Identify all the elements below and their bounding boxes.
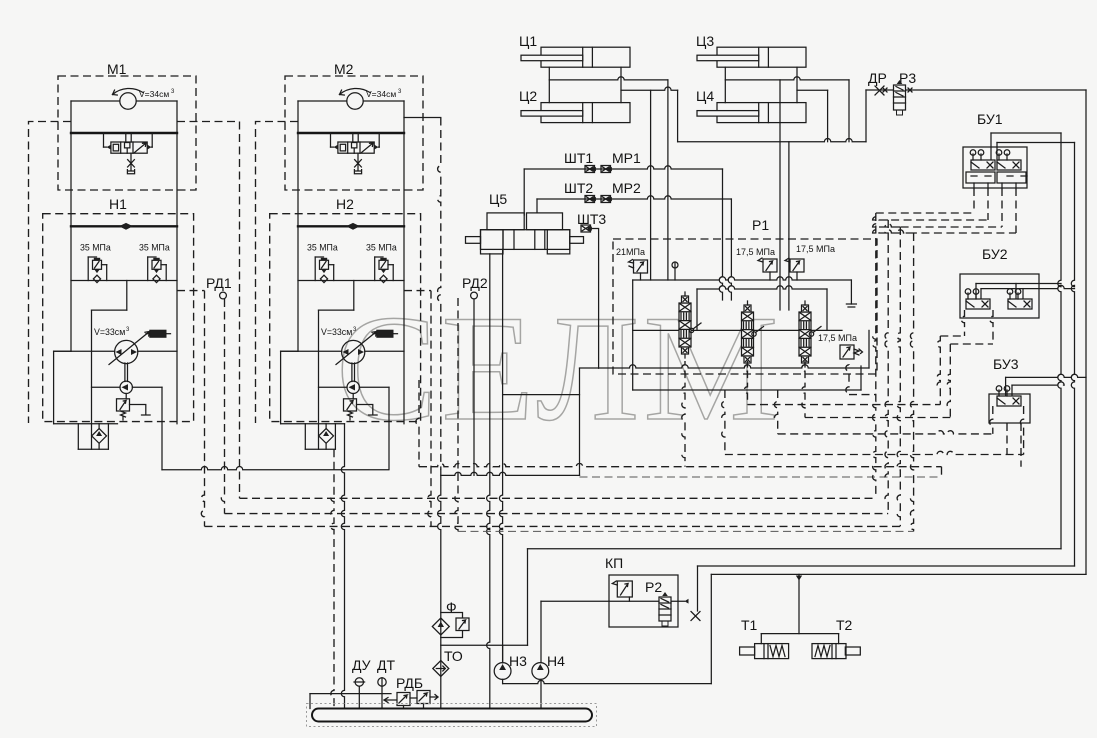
valve Р2 bbox=[659, 597, 671, 621]
svg-text:БУ2: БУ2 bbox=[982, 246, 1008, 262]
cylinder Ц2 bbox=[541, 103, 630, 123]
Р1 box edges bbox=[632, 280, 634, 390]
Ц3-Ц4 tie lines bbox=[724, 67, 726, 102]
cylinder Ц5 upper chambers bbox=[487, 213, 524, 230]
unit M1/H1 bbox=[43, 76, 196, 470]
bus 566 bbox=[698, 565, 1075, 567]
svg-text:Ц5: Ц5 bbox=[489, 191, 507, 207]
КП line bbox=[541, 600, 685, 602]
feed risers to P1 area bbox=[650, 90, 652, 280]
svg-text:РД2: РД2 bbox=[462, 275, 488, 291]
БУ3 box bbox=[989, 394, 1030, 423]
spool 1 bbox=[679, 292, 691, 358]
unit2 tank lines bbox=[331, 449, 334, 712]
svg-text:ШТ1: ШТ1 bbox=[564, 150, 593, 166]
valve Р3 bbox=[894, 85, 906, 110]
svg-text:МР2: МР2 bbox=[612, 180, 641, 196]
Р1 inner top bbox=[697, 286, 827, 289]
tank dotted frame bbox=[307, 704, 597, 727]
svg-text:Н1: Н1 bbox=[109, 196, 127, 212]
check valve stub bbox=[674, 262, 676, 280]
Р1 dashed enclosure bbox=[613, 239, 877, 374]
svg-text:РД1: РД1 bbox=[206, 275, 232, 291]
Н3 discharge bbox=[502, 679, 504, 683]
БУ3 pilot valve bbox=[996, 386, 1021, 406]
svg-text:ДУ: ДУ bbox=[352, 657, 371, 673]
pilot row 454 bbox=[725, 451, 1024, 454]
БУ2 box bbox=[960, 274, 1039, 318]
unit2 outer dash drop bbox=[438, 118, 441, 471]
level sensor ДУ bbox=[355, 678, 363, 686]
БУ2 pilot drops bbox=[961, 310, 964, 336]
link line bbox=[503, 394, 580, 396]
svg-text:ТО: ТО bbox=[444, 648, 463, 664]
Ц5 pistons bbox=[502, 230, 504, 250]
right edge drop from Р3 line bbox=[1085, 90, 1087, 574]
БУ1 pilot valves bbox=[970, 150, 995, 170]
Р1 plugged port bbox=[850, 280, 852, 304]
filter Ф bbox=[432, 618, 449, 635]
РД2 sense line bbox=[473, 299, 475, 475]
H2 servo pilot drop bbox=[416, 380, 419, 467]
КП box bbox=[609, 575, 678, 627]
Б feed drop bbox=[677, 90, 679, 142]
sensor РД2 bbox=[471, 292, 478, 299]
cylinder feed line B2 bbox=[797, 89, 828, 91]
svg-text:17,5 МПа: 17,5 МПа bbox=[796, 244, 835, 254]
suction header bbox=[441, 644, 528, 646]
БУ1 pilot drops bbox=[973, 188, 975, 213]
right bus vertical 1 bbox=[1058, 133, 1061, 549]
plugged port x bbox=[691, 612, 700, 621]
port ШТ2 bbox=[585, 196, 596, 203]
svg-text:Т1: Т1 bbox=[741, 617, 758, 633]
svg-text:ДТ: ДТ bbox=[377, 657, 395, 673]
spool 3 bbox=[799, 301, 811, 367]
cylinder Ц1 bbox=[541, 47, 630, 67]
relief drain dashes bbox=[846, 365, 849, 395]
pilot drop right bbox=[775, 390, 778, 434]
pump Н3 bbox=[494, 663, 511, 680]
relief 17,5 (1) bbox=[763, 259, 777, 272]
cylinder Т2 bbox=[812, 644, 846, 659]
cylinder feed line A bbox=[549, 77, 668, 80]
svg-text:17,5 МПа: 17,5 МПа bbox=[818, 333, 857, 343]
temp sensor ДТ bbox=[378, 678, 386, 686]
cylinder Ц3 bbox=[717, 47, 806, 67]
pressure line to КП area bbox=[528, 548, 1062, 550]
pump Н4 bbox=[532, 663, 549, 680]
filter bypass bbox=[441, 613, 463, 638]
svg-text:Н4: Н4 bbox=[547, 653, 565, 669]
Ц5 bottom port lines bbox=[487, 254, 490, 716]
svg-text:Н2: Н2 bbox=[336, 196, 354, 212]
svg-text:КП: КП bbox=[605, 555, 623, 571]
bus 574 bbox=[711, 573, 1086, 575]
pilot line spool3 down bbox=[802, 361, 805, 418]
unit1 outer dashed box bbox=[29, 122, 72, 424]
cylinder feed line B bbox=[621, 87, 678, 90]
БУ1 feed lines bbox=[990, 133, 992, 160]
drain line to filter bbox=[438, 470, 441, 716]
svg-text:Ц2: Ц2 bbox=[519, 88, 537, 104]
svg-text:БУ1: БУ1 bbox=[977, 111, 1003, 127]
relief 17,5 (2) bbox=[790, 259, 804, 272]
svg-text:Р2: Р2 bbox=[645, 579, 662, 595]
cylinder Ц4 bbox=[717, 103, 806, 123]
svg-text:М1: М1 bbox=[107, 61, 127, 77]
unit2 top stub bbox=[404, 117, 441, 119]
main return bus bbox=[441, 472, 580, 475]
tank bbox=[312, 709, 592, 722]
pilot row 404 bbox=[748, 404, 941, 406]
svg-text:Р1: Р1 bbox=[752, 217, 769, 233]
БУ2 feed lines bbox=[976, 283, 1061, 285]
unit2 outer dashed box bbox=[256, 122, 299, 424]
Р1 manifold top bbox=[633, 277, 852, 280]
svg-text:Ц1: Ц1 bbox=[519, 33, 537, 49]
svg-text:БУ3: БУ3 bbox=[993, 356, 1019, 372]
БУ1 lower boxes bbox=[966, 172, 995, 183]
БУ3 pilot drops bbox=[990, 406, 993, 434]
svg-text:РДБ: РДБ bbox=[396, 675, 423, 691]
РД1 pilot line bbox=[221, 299, 224, 514]
svg-text:Ц4: Ц4 bbox=[696, 88, 714, 104]
Р1 mid gallery bbox=[633, 327, 842, 330]
РД1 branch dash bbox=[177, 290, 205, 292]
sensor РД1 bbox=[220, 292, 227, 299]
pilot row 477 light bbox=[580, 476, 942, 478]
pilot jog bbox=[941, 467, 943, 477]
БУ2 pilot valves bbox=[965, 289, 990, 309]
svg-text:17,5 МПа: 17,5 МПа bbox=[736, 247, 775, 257]
right bus vertical 2 bbox=[1071, 143, 1074, 567]
Н3 feed bbox=[502, 645, 504, 662]
relief 21МПа bbox=[634, 260, 648, 273]
port МР2 bbox=[601, 196, 612, 203]
svg-text:Ц3: Ц3 bbox=[696, 33, 714, 49]
pilot line spool1 down bbox=[682, 361, 685, 467]
pilot row 498 bbox=[240, 497, 876, 499]
riser to ДР bbox=[865, 90, 867, 142]
БУ3 pilot risers bbox=[1006, 423, 1008, 455]
pilot row 417 bbox=[805, 417, 950, 419]
Т1 Т2 supply bbox=[796, 576, 802, 581]
cylinder feed line A2 bbox=[725, 77, 849, 80]
Ц1-Ц2 tie lines bbox=[548, 67, 550, 102]
БУ1 box bbox=[963, 147, 1027, 188]
Ц5 rods bbox=[466, 237, 481, 244]
svg-text:МР1: МР1 bbox=[612, 150, 641, 166]
pilot line spool2 down bbox=[744, 361, 747, 405]
line ШТ2-МР2 row bbox=[537, 196, 731, 199]
ШТ3 drop line bbox=[591, 229, 599, 369]
Р1 bottom lines bbox=[580, 365, 870, 368]
spool port marks bbox=[689, 328, 693, 332]
cylinder Т1 bbox=[755, 644, 789, 659]
cylinder Ц5 body bbox=[481, 230, 570, 250]
svg-text:М2: М2 bbox=[334, 61, 354, 77]
svg-text:Т2: Т2 bbox=[836, 617, 853, 633]
Н4 suction bbox=[540, 679, 542, 716]
БУ1 pilot rows bbox=[876, 212, 974, 214]
main top line through ДР Р3 bbox=[866, 89, 1086, 91]
svg-text:Н3: Н3 bbox=[509, 653, 527, 669]
tank breather РДБ bbox=[384, 698, 397, 703]
tank header line bbox=[310, 693, 391, 695]
pilot row 526 bbox=[205, 525, 901, 527]
svg-text:ШТ2: ШТ2 bbox=[564, 180, 593, 196]
pilot row 531 bbox=[458, 530, 914, 532]
ДР feed line bbox=[678, 139, 866, 142]
svg-text:21МПа: 21МПа bbox=[616, 247, 645, 257]
pilot drop mid bbox=[722, 390, 725, 455]
pilot row 513 bbox=[225, 513, 889, 515]
Н4 discharge riser bbox=[540, 601, 542, 663]
pilot row 434 bbox=[778, 431, 993, 434]
relief 17,5 bottom right bbox=[840, 345, 854, 359]
unit M2/H2 bbox=[270, 76, 423, 470]
unit2 branch dashes bbox=[404, 290, 431, 292]
port ШТ3 bbox=[581, 225, 592, 232]
throttle ДР bbox=[875, 86, 884, 95]
return bus H1-H2 bbox=[162, 467, 388, 470]
КП relief valve bbox=[617, 581, 632, 597]
БУ3 feed lines bbox=[1006, 374, 1086, 377]
port ШТ1 bbox=[585, 166, 596, 173]
cooler ТО bbox=[433, 661, 449, 677]
line ШТ1-МР1 row bbox=[524, 166, 722, 169]
Р1 feed risers bbox=[779, 80, 781, 310]
port МР1 bbox=[601, 166, 612, 173]
spool 2 bbox=[742, 301, 754, 367]
right mesh risers bbox=[873, 213, 876, 498]
svg-text:ДР: ДР bbox=[868, 70, 887, 86]
pilot row 467 bbox=[419, 464, 942, 467]
return riser bbox=[579, 368, 581, 475]
row risers into Р1 bbox=[719, 169, 722, 300]
